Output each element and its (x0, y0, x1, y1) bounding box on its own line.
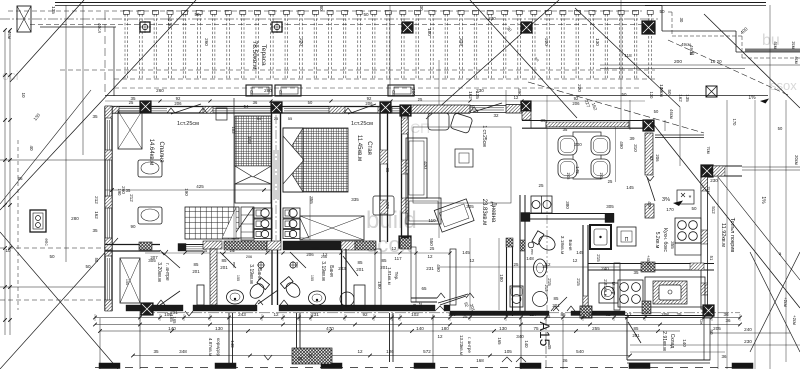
svg-text:305: 305 (148, 258, 156, 263)
svg-text:201: 201 (356, 267, 364, 272)
svg-text:*: * (689, 195, 692, 202)
svg-text:50: 50 (691, 206, 697, 211)
svg-text:92: 92 (649, 156, 654, 161)
svg-text:65: 65 (421, 286, 427, 291)
svg-text:46см: 46см (669, 109, 674, 119)
svg-text:470: 470 (326, 326, 334, 331)
svg-text:Тераса: Тераса (260, 44, 267, 66)
svg-text:епс: епс (295, 262, 299, 268)
svg-text:40сл: 40сл (97, 23, 102, 33)
svg-text:105: 105 (504, 349, 512, 354)
svg-text:49см: 49см (659, 87, 664, 97)
svg-text:25: 25 (418, 97, 423, 102)
svg-text:СВ: СВ (278, 90, 283, 96)
svg-text:50: 50 (85, 264, 91, 269)
svg-text:13.23кв.м: 13.23кв.м (459, 335, 464, 355)
svg-text:80: 80 (319, 5, 324, 11)
svg-text:50: 50 (194, 12, 200, 17)
svg-text:35: 35 (92, 228, 98, 233)
svg-text:130: 130 (595, 38, 600, 46)
svg-text:420: 420 (423, 161, 428, 169)
svg-text:130: 130 (499, 326, 507, 331)
svg-text:12: 12 (545, 262, 551, 267)
svg-text:572: 572 (423, 349, 431, 354)
svg-text:14.64кв.м: 14.64кв.м (148, 139, 154, 166)
svg-text:Кухн. бокс: Кухн. бокс (662, 228, 668, 252)
svg-text:230: 230 (744, 339, 752, 344)
svg-text:1ст.25см: 1ст.25см (177, 121, 199, 127)
svg-text:201: 201 (418, 303, 423, 311)
svg-text:35: 35 (298, 356, 303, 361)
svg-text:35: 35 (92, 114, 98, 119)
svg-text:36: 36 (253, 100, 258, 105)
svg-text:165: 165 (497, 337, 502, 345)
svg-text:180: 180 (448, 312, 456, 317)
svg-text:коридор: коридор (215, 338, 220, 357)
svg-text:35: 35 (153, 349, 159, 354)
svg-text:215: 215 (596, 254, 601, 262)
svg-text:200: 200 (574, 142, 582, 147)
svg-text:231: 231 (426, 266, 434, 271)
svg-text:25: 25 (546, 314, 551, 319)
svg-text:г. антре: г. антре (467, 337, 472, 353)
svg-text:50: 50 (49, 254, 55, 259)
svg-text:49см: 49см (689, 45, 694, 55)
svg-text:55: 55 (288, 116, 293, 121)
svg-text:епс: епс (530, 249, 534, 255)
svg-text:25: 25 (430, 246, 435, 251)
svg-text:Баня: Баня (328, 265, 334, 277)
svg-text:117: 117 (394, 256, 402, 261)
svg-text:240: 240 (744, 327, 752, 332)
svg-text:12: 12 (427, 254, 433, 259)
svg-text:117: 117 (529, 312, 537, 317)
svg-text:162: 162 (678, 94, 683, 102)
svg-text:36: 36 (725, 318, 731, 323)
svg-text:103: 103 (247, 136, 252, 144)
svg-text:Спалня: Спалня (158, 142, 164, 163)
svg-text:145: 145 (575, 166, 580, 174)
svg-text:140: 140 (524, 340, 529, 348)
svg-text:50: 50 (308, 100, 313, 105)
svg-text:190: 190 (184, 188, 189, 196)
svg-text:135: 135 (51, 6, 56, 14)
svg-text:25: 25 (462, 314, 468, 319)
svg-text:35: 35 (633, 270, 639, 275)
svg-text:4см: 4см (773, 41, 778, 48)
svg-text:140: 140 (682, 339, 687, 347)
svg-text:39: 39 (540, 118, 546, 123)
svg-text:50: 50 (94, 258, 99, 263)
svg-text:Дневна: Дневна (490, 202, 496, 223)
svg-text:162: 162 (94, 211, 99, 219)
svg-text:М.пер: М.пер (611, 282, 616, 295)
svg-text:23.83кв.м: 23.83кв.м (481, 199, 487, 226)
svg-text:490: 490 (436, 264, 441, 272)
svg-text:25: 25 (513, 262, 519, 267)
svg-text:12: 12 (470, 258, 475, 263)
svg-text:280: 280 (71, 216, 79, 221)
svg-text:5.2кв.м: 5.2кв.м (654, 232, 660, 249)
svg-text:39: 39 (629, 136, 635, 141)
svg-text:400: 400 (647, 201, 652, 209)
svg-text:490: 490 (619, 141, 624, 149)
svg-text:30: 30 (419, 5, 424, 11)
svg-text:3%: 3% (662, 197, 670, 203)
svg-text:78.50кв.м: 78.50кв.м (251, 41, 258, 70)
svg-text:380: 380 (565, 201, 570, 209)
svg-text:4см: 4см (7, 31, 12, 39)
svg-text:35: 35 (385, 168, 390, 173)
svg-text:10 20: 10 20 (710, 59, 722, 64)
svg-text:348: 348 (179, 349, 187, 354)
svg-text:25: 25 (283, 246, 289, 251)
svg-text:85: 85 (560, 312, 566, 317)
svg-text:12: 12 (573, 258, 578, 263)
svg-text:12: 12 (514, 95, 519, 100)
svg-text:54: 54 (257, 116, 262, 121)
svg-text:212: 212 (129, 194, 134, 202)
svg-text:Склад: Склад (669, 334, 675, 349)
svg-text:г. антре: г. антре (164, 263, 170, 281)
svg-text:50: 50 (621, 92, 627, 97)
svg-text:3.19кв.м: 3.19кв.м (320, 261, 326, 281)
svg-text:180: 180 (377, 281, 382, 289)
svg-text:3.18кв.м: 3.18кв.м (559, 236, 565, 255)
svg-text:20см: 20см (794, 155, 799, 165)
svg-text:165: 165 (172, 317, 177, 325)
svg-text:145: 145 (626, 185, 634, 190)
svg-text:512: 512 (711, 206, 716, 214)
svg-text:140: 140 (416, 326, 424, 331)
svg-text:201: 201 (552, 303, 560, 308)
svg-text:4.87кв.м: 4.87кв.м (207, 338, 213, 357)
svg-text:50: 50 (654, 109, 659, 114)
svg-text:12: 12 (392, 246, 397, 251)
svg-text:215: 215 (576, 278, 581, 286)
svg-text:90: 90 (130, 224, 136, 229)
svg-text:40: 40 (29, 145, 34, 151)
svg-text:50: 50 (778, 126, 783, 131)
svg-text:+4см: +4см (646, 255, 651, 265)
svg-text:26: 26 (230, 248, 235, 253)
svg-text:1%: 1% (760, 196, 766, 204)
svg-text:215: 215 (544, 285, 549, 293)
svg-text:7см: 7см (706, 146, 711, 153)
svg-text:2.91кв.м: 2.91кв.м (661, 331, 667, 351)
svg-text:206: 206 (365, 101, 373, 106)
svg-text:Тер.: Тер. (394, 272, 399, 281)
svg-text:148: 148 (526, 256, 534, 261)
svg-text:170: 170 (732, 119, 737, 127)
svg-text:425: 425 (196, 184, 204, 189)
svg-text:335: 335 (351, 197, 359, 202)
svg-text:50: 50 (709, 330, 714, 335)
svg-text:305: 305 (606, 204, 614, 209)
svg-text:1ст.25см: 1ст.25см (351, 121, 373, 127)
svg-text:10: 10 (21, 92, 26, 98)
svg-text:155: 155 (125, 279, 129, 285)
svg-text:206: 206 (246, 255, 252, 259)
svg-text:35: 35 (126, 188, 131, 193)
svg-text:280: 280 (264, 88, 272, 93)
svg-text:54: 54 (244, 104, 249, 109)
svg-text:епс: епс (44, 238, 49, 246)
svg-text:206: 206 (306, 252, 314, 257)
svg-text:Баня: Баня (567, 239, 573, 250)
svg-text:10: 10 (5, 248, 11, 253)
svg-text:212: 212 (94, 196, 99, 204)
svg-text:145: 145 (462, 250, 470, 255)
svg-text:2см: 2см (791, 41, 796, 48)
svg-text:200: 200 (674, 59, 682, 65)
svg-text:180: 180 (499, 274, 504, 282)
svg-text:51: 51 (709, 256, 714, 261)
svg-text:12: 12 (323, 252, 328, 257)
svg-text:92: 92 (362, 312, 368, 317)
svg-text:25: 25 (129, 100, 134, 105)
svg-text:140: 140 (168, 326, 176, 331)
svg-text:11.92кв.м: 11.92кв.м (720, 223, 726, 247)
svg-text:130: 130 (215, 326, 223, 331)
svg-text:305: 305 (466, 204, 474, 209)
svg-text:140: 140 (230, 340, 235, 348)
svg-text:11.45кв.м: 11.45кв.м (356, 135, 362, 161)
svg-text:206: 206 (655, 154, 660, 162)
svg-text:СВ: СВ (249, 90, 254, 96)
svg-text:340: 340 (516, 334, 524, 339)
svg-text:130: 130 (649, 92, 654, 100)
svg-text:201: 201 (632, 333, 640, 338)
svg-text:Стая: Стая (366, 141, 372, 155)
svg-text:540: 540 (576, 349, 584, 354)
svg-text:170: 170 (666, 207, 674, 212)
svg-text:36: 36 (308, 353, 313, 358)
svg-text:110: 110 (428, 218, 436, 223)
svg-text:25: 25 (676, 312, 682, 317)
svg-text:103: 103 (231, 127, 236, 135)
svg-text:330: 330 (488, 16, 496, 21)
svg-text:25: 25 (203, 248, 208, 253)
svg-text:180: 180 (427, 28, 432, 36)
svg-text:35: 35 (563, 127, 568, 132)
svg-text:ssox: ssox (770, 78, 797, 93)
svg-text:25: 25 (17, 176, 23, 181)
svg-text:36: 36 (723, 312, 729, 317)
svg-text:230: 230 (710, 178, 718, 183)
svg-text:355: 355 (670, 241, 675, 249)
svg-text:92: 92 (172, 304, 177, 309)
svg-text:50: 50 (667, 89, 672, 95)
svg-text:206: 206 (572, 101, 580, 106)
svg-text:Топъл покрив: Топъл покрив (729, 218, 735, 253)
svg-text:3.20кв.м: 3.20кв.м (156, 262, 162, 282)
svg-text:201: 201 (380, 265, 388, 270)
svg-text:25: 25 (538, 183, 544, 188)
svg-text:85: 85 (221, 258, 227, 263)
svg-text:470: 470 (385, 201, 390, 209)
svg-text:155: 155 (310, 275, 314, 281)
svg-text:3.19кв.м: 3.19кв.м (248, 264, 254, 284)
svg-text:+2см: +2см (792, 315, 797, 325)
svg-text:206: 206 (312, 246, 320, 251)
svg-text:220: 220 (299, 38, 304, 46)
svg-text:ОК: ОК (699, 319, 704, 325)
svg-text:85: 85 (381, 258, 387, 263)
svg-text:П: П (625, 237, 629, 243)
svg-text:319: 319 (459, 38, 464, 46)
svg-text:85: 85 (634, 326, 639, 331)
svg-text:85: 85 (554, 296, 559, 301)
svg-text:85: 85 (357, 260, 363, 265)
svg-text:260: 260 (156, 88, 164, 93)
svg-text:1 ст.25см: 1 ст.25см (481, 125, 487, 147)
svg-text:180: 180 (441, 326, 449, 331)
svg-text:85: 85 (194, 262, 199, 267)
svg-text:240: 240 (601, 266, 609, 271)
svg-text:100: 100 (411, 88, 416, 96)
svg-text:12: 12 (437, 334, 443, 339)
svg-text:92: 92 (412, 304, 417, 309)
svg-text:12: 12 (626, 312, 632, 317)
svg-text:36: 36 (721, 354, 727, 359)
svg-text:102: 102 (411, 312, 419, 317)
svg-text:26: 26 (562, 358, 568, 363)
svg-text:Баня: Баня (256, 268, 262, 280)
svg-text:245: 245 (599, 173, 604, 181)
svg-text:255: 255 (592, 326, 600, 331)
svg-text:162: 162 (468, 91, 473, 99)
svg-text:7см: 7см (706, 186, 711, 193)
svg-text:220: 220 (577, 84, 582, 92)
svg-text:155: 155 (236, 275, 240, 281)
svg-text:190: 190 (117, 189, 122, 197)
svg-text:135: 135 (685, 94, 690, 102)
svg-text:206: 206 (174, 101, 182, 106)
svg-text:260: 260 (204, 38, 209, 46)
svg-text:82: 82 (605, 312, 611, 317)
svg-text:4см: 4см (794, 56, 799, 63)
svg-text:12: 12 (266, 248, 271, 253)
svg-text:25: 25 (274, 116, 279, 121)
svg-text:А15: А15 (537, 322, 553, 347)
svg-text:30: 30 (679, 18, 684, 23)
svg-text:50: 50 (363, 12, 369, 17)
svg-text:168: 168 (476, 358, 484, 363)
svg-text:12: 12 (273, 312, 279, 317)
svg-text:135: 135 (475, 91, 480, 99)
svg-text:12: 12 (357, 349, 363, 354)
svg-text:355: 355 (309, 196, 314, 204)
svg-text:2.81кв.м: 2.81кв.м (603, 279, 608, 296)
svg-text:208: 208 (661, 312, 669, 317)
svg-text:245: 245 (566, 173, 571, 181)
svg-text:+2см: +2см (783, 297, 788, 307)
svg-text:145: 145 (576, 250, 584, 255)
svg-text:201: 201 (220, 265, 228, 270)
svg-text:243: 243 (338, 266, 346, 271)
svg-text:50: 50 (469, 104, 475, 109)
svg-text:243: 243 (238, 312, 246, 317)
svg-text:32: 32 (493, 113, 499, 118)
svg-text:25: 25 (608, 179, 613, 184)
svg-text:220: 220 (544, 38, 549, 46)
svg-text:310: 310 (633, 144, 638, 152)
svg-text:201: 201 (192, 269, 200, 274)
svg-text:231: 231 (311, 312, 319, 317)
svg-text:СВ: СВ (391, 90, 396, 96)
svg-text:25: 25 (591, 311, 597, 316)
